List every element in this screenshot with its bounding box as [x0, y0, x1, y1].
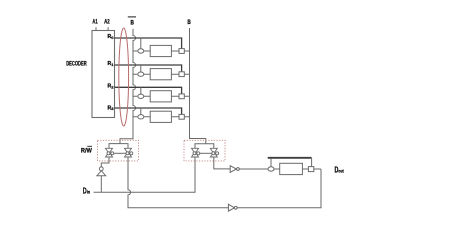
storage cell M3: [150, 91, 171, 102]
wire word line R3: [115, 108, 182, 115]
wire A2 to decoder: [107, 27, 109, 30]
svg-text:Din: Din: [83, 187, 90, 196]
storage cell M1: [150, 45, 171, 56]
svg-text:R3: R3: [108, 105, 115, 111]
wire bit line B vertical: [190, 28, 206, 144]
wire G1 bottom to write inverter: [101, 157, 109, 167]
node B-bar overline: [128, 16, 136, 18]
transistor Q1: [138, 49, 144, 53]
wire R3 gate drop: [140, 108, 142, 115]
wire inverter U3 to output cell: [239, 168, 268, 170]
decoder U1 box: [92, 31, 115, 118]
transistor Q4: [179, 72, 184, 77]
storage cell M2: [150, 69, 171, 80]
wire cell row 1 links: [133, 50, 190, 52]
transistor Q2: [179, 49, 184, 54]
wire cell row 4 links: [133, 116, 190, 118]
inverter U2 (write, pointing up): [99, 167, 103, 171]
wire U2 input from Din: [100, 176, 102, 193]
svg-text:A1: A1: [92, 18, 98, 25]
wire G2 bottom down with hop over Din: [128, 157, 228, 208]
wire U4 output to latch: [237, 169, 321, 208]
wire split to gates (left box): [109, 144, 128, 149]
left R/W gate box (dashed): [98, 140, 139, 161]
wire R0 gate drop: [140, 38, 142, 49]
wire word line R1: [115, 65, 182, 72]
inverter U3 (read): [230, 166, 236, 173]
R/W-bar overline: [87, 145, 92, 147]
wire R2 gate drop: [140, 87, 142, 94]
svg-text:R2: R2: [108, 84, 115, 90]
wire word line R0: [115, 38, 182, 49]
storage cell M4: [150, 111, 171, 122]
svg-text:R/W: R/W: [81, 148, 92, 155]
wire A1 to decoder: [95, 27, 97, 30]
transistor Q8: [179, 114, 184, 119]
wire Din line: [94, 157, 196, 192]
wire cell row 2 links: [133, 73, 190, 75]
storage cell M5 (output latch): [280, 163, 303, 174]
svg-text:A2: A2: [104, 18, 110, 25]
transistor Q7: [138, 115, 144, 119]
wire split to gates (right box): [195, 144, 214, 149]
transistor Q9: [268, 167, 274, 171]
wire word line R2: [115, 87, 182, 94]
svg-text:B: B: [187, 19, 191, 26]
right R/W gate box (dashed): [184, 140, 225, 161]
wire R1 gate drop: [140, 65, 142, 72]
wire latch links: [274, 168, 321, 170]
wire bit line B-bar vertical with hops: [120, 29, 136, 144]
wire cell row 3 links: [133, 95, 190, 97]
transistor Q3: [138, 72, 144, 76]
transmission gate G1: [106, 148, 114, 157]
transistor Q6: [179, 94, 184, 99]
wire G4 to read inverter: [214, 157, 230, 169]
wire output latch gate line: [268, 157, 312, 159]
wire latch gate drops: [271, 158, 312, 167]
highlight ellipse (word-line column): [119, 28, 129, 126]
transmission gate G2: [125, 148, 133, 157]
svg-text:B: B: [131, 20, 135, 27]
wire gate waist link (right box): [200, 152, 212, 154]
transmission gate G3: [192, 148, 200, 157]
wire gate waist link (left box): [114, 152, 126, 154]
svg-text:Dout: Dout: [335, 165, 345, 174]
svg-text:R1: R1: [108, 61, 115, 67]
inverter U4 (feedback, bottom): [228, 204, 234, 211]
transistor Q5: [138, 94, 144, 98]
transmission gate G4: [210, 148, 218, 157]
svg-text:DECODER: DECODER: [66, 60, 87, 67]
svg-text:R0: R0: [108, 34, 115, 40]
transistor Q10: [308, 167, 313, 172]
